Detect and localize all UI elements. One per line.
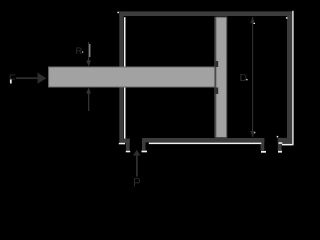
white highlight under left offset bar xyxy=(126,151,130,153)
white dot in bottom-right gap xyxy=(277,136,279,138)
dimension arrowhead down at bottom wall xyxy=(250,131,255,137)
white highlight inner-left upper xyxy=(124,17,126,66)
dimension arrowhead up at top wall xyxy=(250,17,255,23)
cylinder top wall xyxy=(119,11,292,16)
svg-text:D: D xyxy=(240,72,248,84)
bottom wall right piece xyxy=(278,138,292,142)
dimension line R lower segment xyxy=(88,92,89,111)
left wall bottom jog connector xyxy=(124,139,130,143)
bottom wall right piece corner block xyxy=(282,138,292,144)
white highlight inner-left lower xyxy=(124,88,126,139)
cylinder left wall upper segment xyxy=(119,11,123,66)
piston plate left dark edge xyxy=(214,17,216,138)
white dot near D-line bottom arrow xyxy=(254,132,256,134)
left wall bottom offset bar xyxy=(126,139,130,151)
white highlight under bottom mid-right leg xyxy=(261,151,266,153)
force arrow F head xyxy=(38,73,47,84)
bottom wall left piece xyxy=(142,138,264,142)
white remnant dot at R label xyxy=(82,52,83,53)
white remnant at F stem bottom xyxy=(10,80,12,84)
white highlight under bottom wall left piece xyxy=(149,143,261,145)
cylinder right wall xyxy=(287,11,292,143)
white dot near D-line top arrow xyxy=(254,23,256,25)
dark junction mark above rod xyxy=(215,61,218,67)
bottom wall right piece leg xyxy=(278,138,282,151)
svg-text:F: F xyxy=(9,74,16,86)
bottom wall left piece left leg xyxy=(142,138,146,150)
white highlight under bottom-left leg xyxy=(142,151,148,153)
white highlight outer-right wall xyxy=(292,11,293,146)
white remnant right of R line xyxy=(88,44,91,57)
svg-text:P: P xyxy=(133,177,141,189)
bottom wall left piece right leg xyxy=(261,138,265,151)
white highlight under bottom wall right piece step2 xyxy=(282,144,292,146)
white highlight under bottom wall right piece step1 xyxy=(279,142,283,144)
white highlight under right-piece leg xyxy=(278,151,282,153)
pressure arrow P head xyxy=(133,150,141,156)
dimension line D xyxy=(252,17,253,137)
cylinder left wall lower segment xyxy=(119,88,123,144)
force arrow F shaft xyxy=(16,77,38,79)
dimension arrowhead up at rod bottom xyxy=(86,88,91,94)
dimension arrowhead down at rod top xyxy=(86,61,91,67)
white dot outer top-left corner xyxy=(117,12,119,14)
piston rod xyxy=(49,67,216,87)
dimension line R upper segment xyxy=(88,42,89,62)
white highlight under left wall end xyxy=(119,143,125,145)
dark junction mark below rod xyxy=(215,88,218,95)
white dot inner top-right corner xyxy=(286,17,288,19)
piston plate xyxy=(216,17,227,138)
pressure arrow P shaft xyxy=(136,155,138,176)
white remnant dot at D label xyxy=(246,79,247,80)
svg-text:R: R xyxy=(76,46,83,57)
